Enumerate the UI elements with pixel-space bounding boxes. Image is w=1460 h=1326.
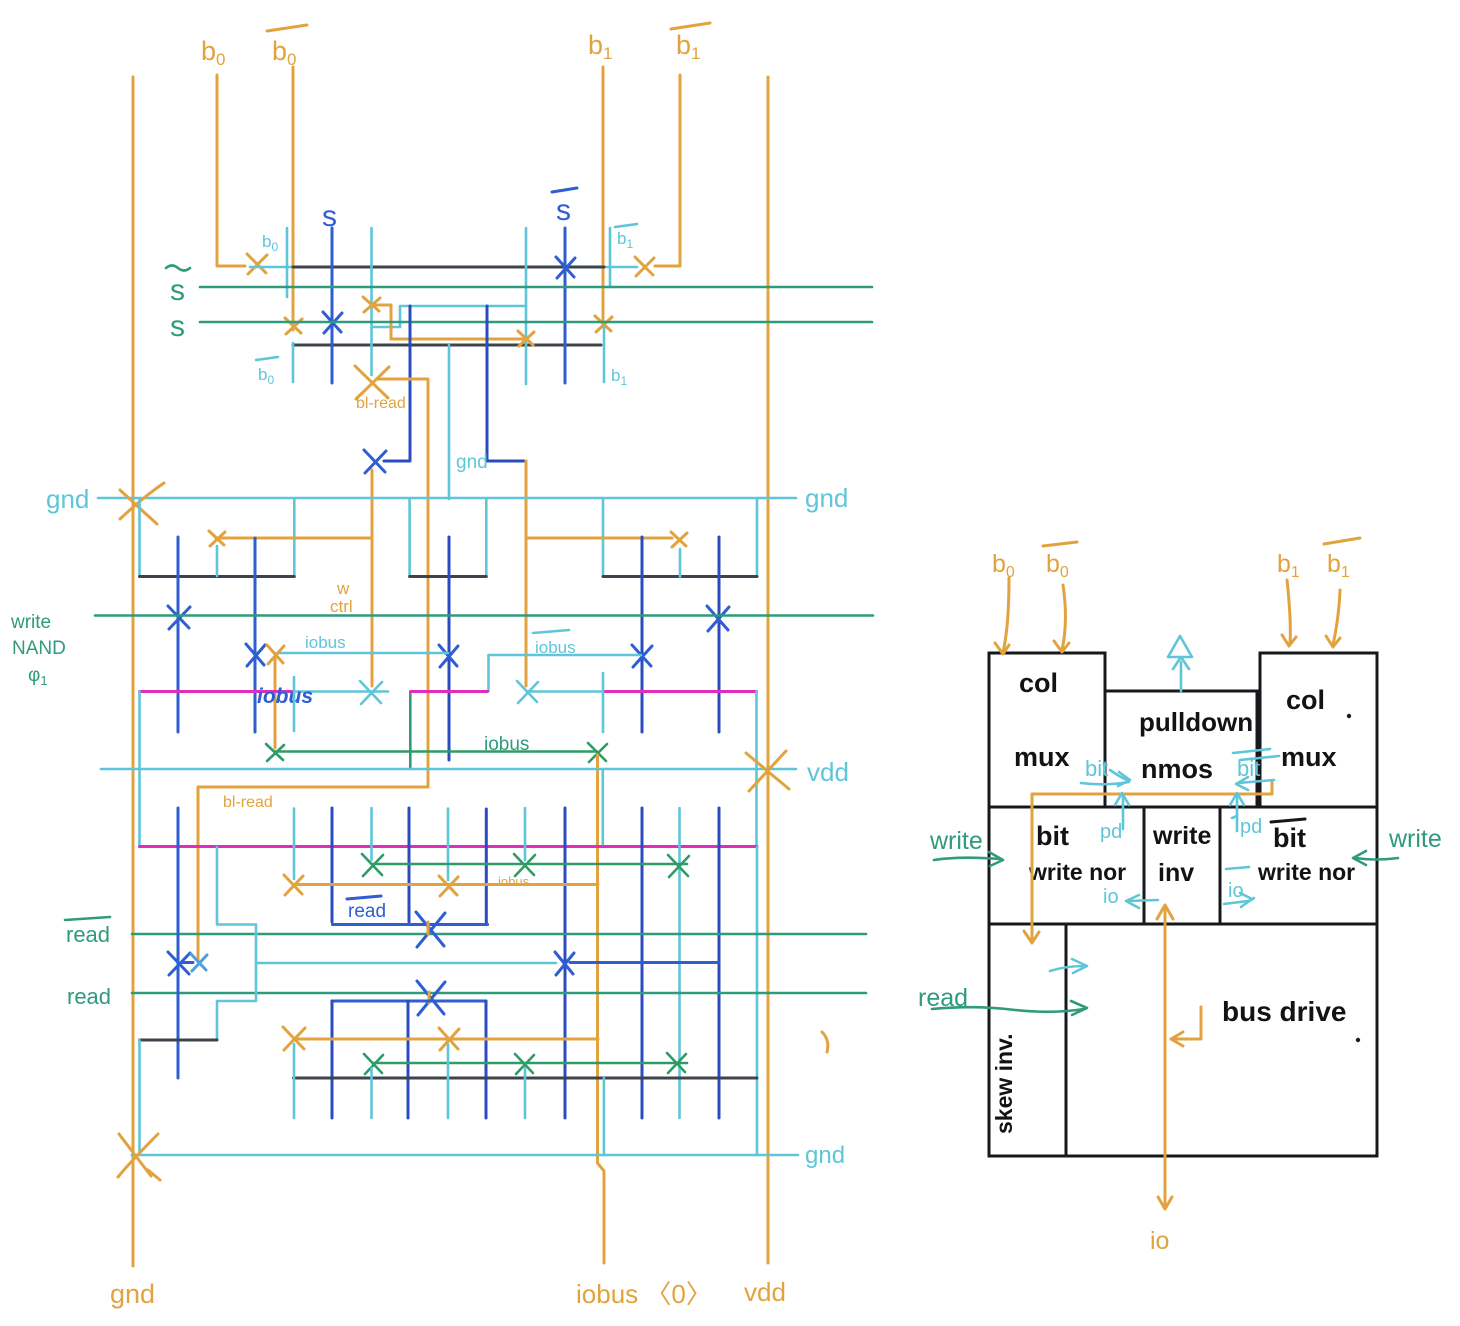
wire bank2 diffusion x371 (cyan) xyxy=(370,808,373,860)
wire gnd diffusion drop (cyan) xyxy=(448,345,451,499)
contact x b0bar to s line xyxy=(285,318,302,334)
wire rail right segment (cyan) xyxy=(756,847,759,1155)
transistor bar read mux (dark) xyxy=(140,1039,218,1042)
wire gnd drop 4 (cyan) xyxy=(485,499,488,576)
wire teal drop magenta to vdd xyxy=(409,693,412,770)
svg-text:iobus: iobus xyxy=(498,874,530,889)
contact x on right diffusion xyxy=(518,331,534,346)
contact X gnd to left rail (orange big) xyxy=(120,483,164,524)
contact x green row2 left xyxy=(364,1054,383,1074)
wire iobus green row xyxy=(275,750,597,753)
transistor bar bottom (dark) xyxy=(294,1077,758,1080)
wire w-ctrl horizontal right (orange) xyxy=(526,537,672,540)
wire iobus2 cyan mid xyxy=(294,690,388,693)
contact X orange row2 mid xyxy=(439,1028,459,1050)
wire b1 diffusion stub lower (cyan) xyxy=(603,327,606,382)
wire nand gate A (blue vertical) xyxy=(177,537,180,732)
contact X gate E to write line xyxy=(707,606,729,631)
svg-text:inv: inv xyxy=(1158,859,1194,887)
arrow b0bar (orange) xyxy=(1062,585,1066,650)
arrow b1bar (orange) xyxy=(1333,590,1340,645)
wire diffusion top row right (cyan) xyxy=(604,266,637,269)
contact X gate B to iobus xyxy=(246,644,265,666)
contact X b0 to poly xyxy=(247,254,267,274)
svg-text:bit: bit xyxy=(1085,756,1108,781)
wire iobus left (cyan) xyxy=(277,652,448,655)
contact X gate D to iobus-bar xyxy=(632,645,652,667)
dot col mux right xyxy=(1347,714,1351,718)
svg-text:iobus: iobus xyxy=(484,734,529,755)
block col mux left xyxy=(989,653,1105,807)
wire read mux link (blue) xyxy=(182,961,193,964)
svg-text:gnd: gnd xyxy=(805,483,848,513)
contact X orange row1 left xyxy=(284,875,303,895)
wire gnd drop 2 (cyan) xyxy=(293,499,296,576)
wire iobus-bar (cyan) xyxy=(489,655,642,691)
wire read staircase (cyan) xyxy=(217,847,256,1040)
contact X navy to orange xyxy=(364,450,386,473)
transistor bar mid (dark) xyxy=(410,575,487,578)
wire gnd drop 6 (cyan) xyxy=(756,499,759,576)
svg-text:s: s xyxy=(170,310,185,343)
wire bank2 diffusion x294 (cyan) xyxy=(293,809,296,880)
contact X iobus green right xyxy=(588,743,607,762)
svg-text:io: io xyxy=(1228,880,1244,902)
contact x w-ctrl left end xyxy=(209,531,225,546)
contact X read mux left (blue) xyxy=(168,952,190,975)
wire iobus0 vertical (orange) xyxy=(598,755,605,1263)
wire read link (blue) xyxy=(332,1000,486,1003)
wire navy link row (blue) xyxy=(570,961,719,964)
wire nand gate B (blue vertical) xyxy=(254,538,257,732)
svg-text:bl-read: bl-read xyxy=(223,794,273,811)
svg-text:gnd: gnd xyxy=(110,1279,155,1309)
wire diffusion stub x294 (cyan) xyxy=(293,677,296,731)
svg-text:mux: mux xyxy=(1014,742,1070,772)
contact X read row (blue big) xyxy=(417,981,445,1015)
block col mux right xyxy=(1260,653,1377,807)
wire bot diffusion x603 (cyan) xyxy=(603,1078,606,1155)
wire vdd right rail (orange vertical) xyxy=(767,77,770,1263)
contact X readbar (blue big) xyxy=(416,912,445,947)
svg-text:gnd: gnd xyxy=(46,484,89,514)
wire gate stub left (cyan) xyxy=(216,546,219,576)
svg-text:write: write xyxy=(1152,822,1211,850)
wire center diffusion right (cyan vertical) xyxy=(525,228,528,384)
contact X iobus2 right orange xyxy=(517,681,538,703)
wire gnd drop 3 (cyan) xyxy=(408,499,411,576)
wire rail left segment2 (cyan) xyxy=(138,692,141,848)
wire center diffusion left (cyan vertical) xyxy=(370,228,373,375)
wire orange row1 xyxy=(293,883,598,886)
divider skew inv xyxy=(1065,924,1068,1156)
wire bank2 diffusion x679 (cyan long) xyxy=(678,808,681,1118)
svg-text:s: s xyxy=(322,200,337,233)
wire rail left segment3 (cyan) xyxy=(138,1040,141,1155)
block bottom row xyxy=(989,924,1377,1156)
wire b0bar diffusion stub lower (cyan) xyxy=(292,343,295,382)
svg-text:NAND: NAND xyxy=(12,638,66,659)
wire bank2 gate x642 (navy long) xyxy=(641,808,644,1118)
wire green row2 xyxy=(373,1062,687,1065)
wire select line s (teal) xyxy=(200,321,872,324)
wire bank2 gate x719 (navy long) xyxy=(718,808,721,1118)
contact X s vertical to s line xyxy=(323,312,342,333)
contact X green row1 left xyxy=(362,854,383,876)
contact X green row1 mid xyxy=(514,854,535,876)
wire iobus orange drop xyxy=(274,658,277,748)
contact x bl-read end (light blue) xyxy=(191,954,207,971)
wire nand gate C (navy vertical) xyxy=(448,537,451,760)
wire bank2 diffusion x448 (cyan) xyxy=(447,809,450,881)
svg-text:iobus: iobus xyxy=(257,685,313,708)
wire read gate drop 1 (navy) xyxy=(331,1001,334,1118)
wire b0 diffusion stub (cyan) xyxy=(286,228,289,297)
wire bank2 gate x409 (navy) xyxy=(408,808,411,922)
wire gnd left rail (orange vertical) xyxy=(132,77,135,1266)
svg-text:s: s xyxy=(556,194,571,227)
contact X staircase to navy (blue) xyxy=(555,952,574,975)
svg-text:bus drive: bus drive xyxy=(1222,996,1346,1027)
wire bot diffusion x448 (cyan) xyxy=(447,1044,450,1118)
wire b0bar bitline (orange) xyxy=(292,67,295,330)
wire iobus2 cyan right xyxy=(527,690,604,693)
svg-text:ctrl: ctrl xyxy=(330,597,353,616)
block pulldown nmos xyxy=(1105,691,1257,807)
svg-text:bl-read: bl-read xyxy=(356,395,406,412)
wire diffusion stub x603 (cyan) xyxy=(602,673,605,732)
contact x b1 to s line xyxy=(595,316,612,332)
wire iobus2 cyan corner drop xyxy=(755,692,758,848)
divider write inv right xyxy=(1219,807,1222,924)
wire b1bar diffusion stub (cyan) xyxy=(609,228,612,287)
svg-text:iobus: iobus xyxy=(535,638,576,657)
wire magenta row2 xyxy=(140,845,758,848)
via tick orange readbar xyxy=(427,922,430,934)
wire diffusion cross link (cyan) xyxy=(372,306,527,327)
wire bot diffusion x371 (cyan) xyxy=(370,1068,373,1118)
svg-text:s: s xyxy=(170,274,185,307)
wire nand gate E (navy vertical) xyxy=(718,537,721,732)
svg-text:bit: bit xyxy=(1273,823,1306,853)
stray mark (orange) xyxy=(822,1032,828,1052)
wire orange elbow from col mux xyxy=(1032,781,1272,940)
contact X iobus2 to w-ctrl orange xyxy=(360,681,382,704)
wire iobus2 magenta right xyxy=(604,690,757,693)
svg-text:vdd: vdd xyxy=(744,1277,786,1307)
wire gnd bottom row (cyan) xyxy=(132,1154,798,1157)
wire green row1 xyxy=(372,863,687,866)
svg-text:w: w xyxy=(336,579,350,598)
contact x green row2 right xyxy=(667,1053,686,1073)
wire bot diffusion x525 (cyan) xyxy=(524,1068,527,1118)
arrow b0 (orange) xyxy=(1003,578,1009,652)
wire write-nand line (teal) xyxy=(95,614,873,617)
svg-text:iobus: iobus xyxy=(305,633,346,652)
contact x orange row1 mid xyxy=(439,876,458,896)
contact X sbar vertical to poly xyxy=(556,257,575,278)
contact x iobus green left xyxy=(266,744,284,761)
wire iobus2 magenta mid xyxy=(411,690,488,693)
wire w-ctrl orange vertical right xyxy=(525,461,528,686)
svg-text:write: write xyxy=(10,612,51,633)
arrow short (teal) xyxy=(1050,966,1084,971)
contact X bl-read big xyxy=(355,366,389,399)
svg-text:write nor: write nor xyxy=(1257,859,1355,885)
wire bank2 diffusion x525 (cyan) xyxy=(524,808,527,860)
svg-text:nmos: nmos xyxy=(1141,754,1213,784)
wire bot diffusion x294 (cyan) xyxy=(293,1044,296,1118)
wire read mux gate (blue vertical) xyxy=(177,808,180,1078)
via tick orange read xyxy=(428,992,431,1003)
svg-text:write nor: write nor xyxy=(1028,859,1126,885)
svg-text:vdd: vdd xyxy=(807,757,849,787)
svg-text:mux: mux xyxy=(1281,742,1337,772)
svg-text:read: read xyxy=(348,901,386,922)
arrow b1 (orange) xyxy=(1287,580,1290,644)
transistor bar right (dark) xyxy=(603,575,757,578)
svg-text:write: write xyxy=(929,827,983,855)
svg-text:pd: pd xyxy=(1240,816,1262,838)
contact X green row1 right xyxy=(668,855,689,877)
wire read gate drop 3 (navy) xyxy=(485,1001,488,1118)
svg-text:col: col xyxy=(1286,685,1325,715)
wire gnd row (cyan) xyxy=(98,497,796,500)
wire metal jog (orange) xyxy=(372,305,523,339)
wire bank2 gate x565 (navy long) xyxy=(564,808,567,1118)
wire b0 bitline (orange) xyxy=(217,75,245,266)
contact X gate A to write line xyxy=(168,606,190,629)
wire orange hook mid xyxy=(1174,1007,1201,1039)
svg-text:gnd: gnd xyxy=(805,1142,845,1169)
wire w-ctrl orange vertical left xyxy=(371,470,374,686)
contact X vdd to right rail (orange big) xyxy=(746,751,789,791)
wire gnd drop 5 (cyan) xyxy=(602,499,605,576)
wire navy drop right xyxy=(487,306,524,461)
svg-text:io: io xyxy=(1103,886,1119,908)
wire bl-read metal (orange) xyxy=(198,379,428,960)
wire b1 bitline (orange) xyxy=(602,67,605,327)
contact x on center diffusion xyxy=(363,297,380,312)
contact X gate C to iobus xyxy=(439,645,458,667)
wire gnd drop 1 (cyan) xyxy=(138,499,141,576)
svg-text:skew inv.: skew inv. xyxy=(991,1033,1017,1134)
wire io vertical (orange) xyxy=(1164,906,1167,1207)
wire s select vertical (blue) xyxy=(331,228,334,383)
wire nand gate D (navy vertical) xyxy=(641,537,644,732)
wire read gate drop 2 (navy) xyxy=(407,1001,410,1118)
transistor bar left (dark) xyxy=(140,575,295,578)
svg-text:bit: bit xyxy=(1036,821,1069,851)
contact X orange row2 left xyxy=(283,1027,305,1050)
wire sbar select vertical (blue) xyxy=(564,228,567,383)
arrow pullup triangle (cyan) xyxy=(1168,636,1192,657)
svg-text:pd: pd xyxy=(1100,821,1122,843)
wire navy drop left xyxy=(384,306,410,461)
wire vdd diffusion drop (cyan) xyxy=(601,769,604,847)
svg-text:write: write xyxy=(1388,825,1442,853)
contact X b1bar to poly xyxy=(635,257,654,276)
svg-text:iobus 〈0〉: iobus 〈0〉 xyxy=(576,1279,712,1309)
wire readbar row (teal) xyxy=(132,933,866,936)
svg-text:io: io xyxy=(1150,1227,1169,1255)
wire poly gate bar second (dark) xyxy=(293,344,601,347)
svg-text:read: read xyxy=(67,984,111,1009)
wire read staircase branch (cyan) xyxy=(256,962,556,965)
contact x iobus to orange xyxy=(267,645,284,664)
block middle row xyxy=(989,807,1377,924)
wire bank2 gate x332 (navy) xyxy=(331,808,334,922)
wire diffusion top row left (cyan) xyxy=(250,266,293,269)
svg-text:pulldown: pulldown xyxy=(1139,707,1253,737)
svg-text:gnd: gnd xyxy=(456,452,488,473)
wire vdd row (cyan) xyxy=(101,768,796,771)
wire poly gate bar top (dark) xyxy=(293,266,604,269)
wire w-ctrl horizontal left (orange) xyxy=(216,537,371,540)
svg-text:col: col xyxy=(1019,668,1058,698)
contact x green row2 mid xyxy=(515,1054,534,1074)
contact x w-ctrl right end xyxy=(671,532,687,547)
dot bus drive xyxy=(1356,1038,1360,1042)
wire select line sbar (teal) xyxy=(200,286,872,289)
wire b1bar bitline (orange) xyxy=(655,75,680,266)
wire iobus2 magenta left xyxy=(140,690,294,693)
wire gate stub right (cyan) xyxy=(679,549,682,577)
wire bank2 gate x486 (navy) xyxy=(485,809,488,924)
divider write inv left xyxy=(1143,807,1146,924)
wire orange row2 xyxy=(294,1038,598,1041)
wire readbar link (blue) xyxy=(332,923,487,926)
svg-text:read: read xyxy=(66,922,110,947)
contact X gnd bottom to rail (orange big) xyxy=(118,1134,160,1180)
wire read row (teal) xyxy=(132,992,866,995)
